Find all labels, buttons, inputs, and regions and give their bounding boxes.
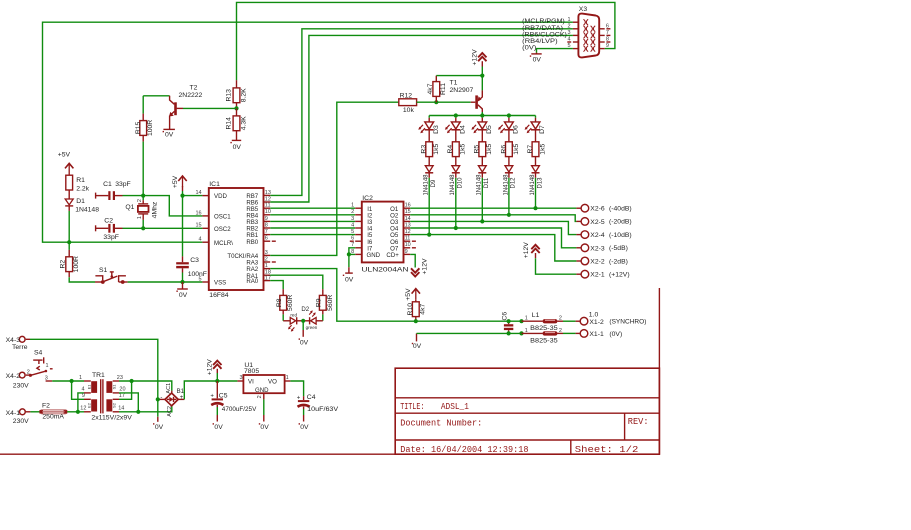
title block REV divider: [624, 413, 626, 440]
diode D13 1N4148: [530, 166, 543, 196]
svg-text:1: 1: [286, 375, 289, 381]
svg-text:6: 6: [606, 23, 609, 29]
svg-text:2: 2: [351, 209, 354, 215]
resistor R14: [226, 108, 248, 140]
svg-text:OSC1: OSC1: [214, 214, 231, 221]
svg-text:(-40dB): (-40dB): [609, 206, 632, 213]
wire RB3 to I3: [270, 220, 355, 222]
svg-text:R12: R12: [400, 93, 413, 100]
junction D12/O2: [507, 213, 511, 217]
ground 0V below rail: [153, 417, 164, 431]
svg-text:D3: D3: [433, 125, 440, 134]
svg-text:250mA: 250mA: [42, 414, 64, 421]
svg-text:VDD: VDD: [214, 193, 227, 200]
svg-text:OSC2: OSC2: [214, 226, 231, 233]
svg-text:D4: D4: [459, 125, 466, 134]
capacitor C3 100nF: [176, 256, 207, 278]
diode D10 1N4148: [450, 166, 463, 196]
X3 pin 2: [573, 28, 579, 30]
svg-text:16: 16: [195, 210, 201, 216]
svg-text:0V: 0V: [300, 424, 309, 431]
svg-text:3: 3: [265, 250, 268, 256]
ground 0V below IC2: [343, 254, 354, 283]
svg-text:B825-35: B825-35: [530, 338, 558, 345]
wire net MCLR X3.1 to left border loop: [43, 22, 573, 242]
IC2 pin 14 O3: [404, 220, 411, 222]
svg-text:R6: R6: [500, 145, 507, 154]
svg-text:6: 6: [351, 236, 354, 242]
IC2 pin 3: [355, 220, 362, 222]
svg-text:R10: R10: [407, 303, 414, 316]
svg-text:VO: VO: [268, 379, 277, 386]
junction F2/TR1 node: [76, 410, 80, 414]
wire +5V rail down to C3: [182, 191, 184, 256]
wire R15 bottom to crystal node: [142, 142, 144, 196]
junction L1 top left: [519, 319, 523, 323]
svg-text:33pF: 33pF: [103, 234, 119, 241]
svg-text:1k5: 1k5: [460, 144, 467, 155]
junction +12V node: [480, 74, 484, 78]
wire O4 to X2-3: [410, 228, 576, 248]
svg-text:0V: 0V: [300, 340, 309, 347]
IC2 pin 13 O4: [404, 227, 411, 229]
svg-text:D12: D12: [511, 177, 517, 189]
svg-text:12: 12: [405, 229, 411, 235]
wire C3 to VSS: [182, 273, 184, 283]
wire primary node down to pin 9: [72, 381, 84, 399]
wire 0V line to L bottom: [417, 332, 522, 334]
connector X2-2: [576, 257, 627, 265]
IC1 pin 17 RA0: [264, 280, 271, 282]
svg-text:S2: S2: [111, 402, 116, 408]
svg-text:+12V: +12V: [421, 258, 428, 275]
connector X2-1: [576, 270, 629, 278]
resistor R4 1k5: [447, 130, 467, 166]
svg-text:(0V): (0V): [609, 331, 622, 338]
svg-text:4k7: 4k7: [427, 83, 434, 94]
resistor R15: [135, 96, 154, 142]
wire R11 top to +12V node: [436, 75, 482, 77]
junction B1 minus / 0V rail: [156, 397, 160, 401]
junction R11 bottom / T1 base: [434, 100, 438, 104]
IC1 pin 16 OSC1: [202, 215, 208, 217]
ground 0V below T2: [163, 129, 175, 138]
wire L1 to X1-2: [563, 320, 576, 322]
LED D4: [445, 116, 467, 134]
wire crystal node to OSC1: [143, 196, 202, 216]
X3 pin 6 unconnected: [599, 28, 605, 30]
junction crystal top node: [141, 194, 145, 198]
svg-text:X2-6: X2-6: [590, 206, 605, 213]
title block row line 1: [395, 397, 659, 399]
svg-text:S1: S1: [111, 384, 116, 390]
wire X3.5 to 0V: [537, 49, 573, 53]
svg-text:RB0: RB0: [246, 239, 258, 246]
svg-text:IC2: IC2: [362, 195, 373, 202]
svg-text:13: 13: [405, 222, 411, 228]
X3 pin 3: [573, 34, 579, 36]
IC1 pin 13 RB7: [264, 194, 271, 196]
inductor B825-35 lower: [522, 328, 564, 345]
svg-text:3: 3: [240, 375, 243, 381]
svg-text:R2: R2: [60, 260, 67, 269]
X3 pin 8 unconnected: [599, 41, 605, 43]
svg-text:+: +: [180, 395, 184, 401]
IC IC2 ULN2004AN: [362, 195, 409, 274]
svg-text:9: 9: [82, 393, 85, 399]
title block row line 3: [395, 439, 659, 441]
svg-text:17: 17: [265, 275, 271, 281]
transformer TR1: [79, 372, 132, 422]
IC1 pin 1 RA2: [264, 268, 271, 270]
svg-text:20: 20: [119, 387, 125, 393]
svg-text:10uF/63V: 10uF/63V: [307, 406, 338, 413]
wire D9 to O5 row: [428, 178, 430, 235]
IC1 pin 5 VSS: [202, 281, 208, 283]
junction R10/synchro: [414, 319, 418, 323]
svg-text:IC1: IC1: [209, 181, 220, 188]
diode D12 1N4148: [503, 166, 516, 196]
svg-text:B825-35: B825-35: [530, 325, 558, 332]
capacitor C4 10uF/63V: [297, 394, 339, 413]
junction R13/R14/T2 base: [234, 106, 238, 110]
svg-text:0V: 0V: [413, 343, 422, 350]
svg-text:+5V: +5V: [405, 288, 412, 301]
svg-text:D7: D7: [539, 125, 546, 134]
svg-text:D10: D10: [458, 177, 464, 189]
connector X1-2: [576, 311, 647, 326]
svg-text:3: 3: [45, 376, 48, 382]
svg-text:14: 14: [118, 405, 124, 411]
junction GND node: [347, 252, 351, 256]
resistor R10 4k7: [407, 300, 427, 321]
svg-text:+5V: +5V: [172, 175, 179, 188]
frame bottom border line: [0, 453, 659, 455]
wire RB2 to I4: [270, 227, 355, 229]
junction L bottom left: [519, 331, 523, 335]
svg-text:GND: GND: [367, 252, 381, 259]
svg-text:T2: T2: [190, 85, 198, 92]
svg-text:Terre: Terre: [12, 344, 28, 351]
wire fuse to TR1 pin12: [67, 411, 84, 413]
capacitor C1 33pF: [96, 181, 131, 200]
svg-text:-: -: [160, 395, 162, 401]
IC1 pin 6 RB0 unconnected: [264, 240, 271, 242]
svg-text:1: 1: [265, 263, 268, 269]
svg-text:15: 15: [405, 209, 411, 215]
wire I7 to GND: [349, 248, 355, 255]
svg-text:12: 12: [80, 405, 86, 411]
svg-text:R15: R15: [135, 121, 142, 134]
IC2 pin 9 CD+: [404, 253, 411, 255]
IC1 pin 11 RB5: [264, 207, 271, 209]
svg-text:5: 5: [351, 229, 354, 235]
svg-text:1k5: 1k5: [513, 144, 520, 155]
wire S1 to VSS: [128, 281, 203, 283]
resistor R11 4k7: [427, 76, 447, 103]
svg-text:AC1: AC1: [166, 383, 172, 394]
+12V supply for X2-1: [523, 242, 540, 259]
svg-text:D1: D1: [76, 198, 85, 205]
wire net RB6/CLOCK X3.3: [270, 35, 573, 202]
wire O1 to X2-6: [410, 207, 576, 209]
svg-text:C1: C1: [103, 181, 112, 188]
connector X2-5: [576, 218, 631, 226]
wire +12V to T1 emitter: [481, 67, 483, 76]
svg-text:100R: 100R: [73, 256, 80, 272]
junction pin14 node: [136, 410, 140, 414]
svg-text:+12V: +12V: [523, 242, 530, 259]
+12V supply above C5: [206, 359, 221, 381]
svg-text:X4-2: X4-2: [6, 373, 21, 380]
svg-text:MCLR\: MCLR\: [214, 240, 233, 247]
svg-text:S1: S1: [99, 267, 108, 274]
svg-text:green: green: [306, 325, 318, 330]
+12V supply below CD+ pointing down: [411, 258, 428, 276]
connector X3 DB9: [578, 6, 599, 57]
svg-text:Sheet: 1/2: Sheet: 1/2: [575, 445, 639, 455]
svg-text:4.3K: 4.3K: [241, 116, 248, 130]
svg-text:GND: GND: [255, 387, 269, 394]
svg-text:10: 10: [265, 209, 271, 215]
connector X2-6: [576, 204, 631, 212]
svg-text:4: 4: [199, 237, 202, 243]
svg-text:T1: T1: [450, 79, 458, 86]
svg-text:R11: R11: [440, 83, 447, 95]
IC1 pin 4 MCLR: [202, 241, 208, 243]
svg-text:X4-1: X4-1: [6, 410, 21, 417]
svg-text:1: 1: [568, 17, 571, 23]
svg-text:D9: D9: [431, 179, 437, 187]
svg-text:Document Number:: Document Number:: [400, 419, 482, 429]
svg-text:3: 3: [568, 30, 571, 36]
wire TR1 pin20 down: [119, 393, 138, 412]
IC1 pin 12 RB6: [264, 201, 271, 203]
wire RA4/T0CKI to R12: [270, 102, 399, 255]
junction crystal bottom node: [141, 226, 145, 230]
svg-text:100R: 100R: [147, 120, 154, 136]
wire +12V to X2-1: [536, 258, 577, 274]
junction on MCLR line: [67, 240, 71, 244]
junction C6 bottom: [507, 331, 511, 335]
svg-text:5: 5: [568, 43, 571, 49]
svg-text:11: 11: [405, 236, 411, 242]
svg-text:X3: X3: [579, 6, 588, 13]
wire C1 to crystal node: [123, 195, 144, 197]
svg-text:ULN2004AN: ULN2004AN: [362, 267, 409, 274]
svg-text:7: 7: [606, 30, 609, 36]
switch S4: [27, 349, 53, 381]
svg-text:ADSL_1: ADSL_1: [441, 402, 469, 412]
junction bus D6: [507, 113, 511, 117]
wire T2 base to R13/R14 junction: [183, 107, 237, 109]
svg-text:17: 17: [119, 393, 125, 399]
svg-text:230V: 230V: [13, 382, 29, 389]
bridge rectifier B1: [158, 383, 185, 417]
wire pin14 to AC2: [119, 406, 172, 412]
wire X4-1 to fuse: [30, 411, 39, 413]
wire pin23 to pin17 tie: [119, 381, 132, 399]
junction D11/O3: [480, 219, 484, 223]
IC IC1 16F84: [209, 181, 264, 299]
junction S4/TR1 node: [70, 379, 74, 383]
resistor R7 1k5: [527, 130, 547, 166]
IC1 pin 18 RA1: [264, 274, 271, 276]
svg-text:X1-1: X1-1: [589, 331, 604, 338]
svg-text:8: 8: [265, 222, 268, 228]
wire B1 plus to +12V node: [184, 381, 237, 399]
wire RA0 to R8: [270, 281, 283, 290]
svg-text:10k: 10k: [403, 107, 415, 114]
svg-text:11: 11: [265, 203, 271, 209]
svg-text:1: 1: [46, 363, 49, 369]
svg-text:R7: R7: [527, 145, 534, 154]
capacitor C6: [501, 312, 513, 334]
wire X4-3 to 0V rail: [30, 339, 158, 417]
svg-text:4Mhz: 4Mhz: [152, 201, 159, 218]
inductor L1 B825-35: [522, 312, 564, 332]
resistor R6 1k5: [500, 130, 520, 166]
resistor R5 1k5: [474, 130, 494, 166]
IC1 pin 8 RB2: [264, 227, 271, 229]
svg-text:4: 4: [568, 37, 571, 43]
svg-text:14: 14: [405, 216, 411, 222]
X3 pin 5: [573, 48, 579, 50]
connector X2-4: [576, 231, 631, 239]
junction +12V node: [215, 379, 219, 383]
wire D11 to O3 row: [481, 178, 483, 222]
svg-text:R3: R3: [421, 145, 428, 154]
LED D2 red half: [283, 306, 310, 332]
wire O2 to X2-5: [410, 215, 576, 222]
resistor R13: [226, 80, 248, 108]
wire R12 to T1 base: [417, 101, 471, 103]
svg-text:0V: 0V: [179, 292, 188, 299]
svg-text:VSS: VSS: [214, 280, 226, 287]
svg-text:4700uF/25V: 4700uF/25V: [222, 406, 257, 413]
wire RB5 to I1: [270, 207, 355, 209]
svg-text:560R: 560R: [327, 295, 334, 311]
wire lower L to X1-1: [563, 332, 576, 334]
svg-text:Date: 16/04/2004 12:39:18: Date: 16/04/2004 12:39:18: [400, 445, 528, 455]
svg-text:7: 7: [265, 229, 268, 235]
svg-text:4k7: 4k7: [419, 304, 426, 315]
svg-text:33pF: 33pF: [115, 181, 131, 188]
regulator U1 7805: [237, 362, 290, 400]
ground 0V below X3 pin5: [530, 53, 542, 64]
svg-text:+12V: +12V: [206, 359, 213, 376]
ground 0V below U1: [259, 399, 269, 430]
wire R8 to D2 left: [282, 314, 284, 320]
IC1 pin 15 OSC2: [202, 227, 208, 229]
svg-text:CD+: CD+: [386, 252, 399, 259]
fuse F2 250mA: [39, 402, 67, 420]
wire R9 to D2 right: [322, 314, 324, 320]
wire CD+ to +12V: [410, 254, 415, 267]
svg-text:2x115V/2x9V: 2x115V/2x9V: [91, 415, 132, 422]
svg-text:0V: 0V: [233, 144, 242, 151]
wire RB4 to I2: [270, 214, 355, 216]
svg-text:230V: 230V: [13, 418, 29, 425]
svg-text:D13: D13: [537, 177, 543, 189]
svg-text:R8: R8: [276, 298, 283, 307]
ground 0V below VSS: [176, 282, 187, 299]
svg-text:X2-4: X2-4: [590, 232, 605, 239]
svg-text:E2: E2: [87, 402, 92, 408]
junction D2 center: [301, 319, 305, 323]
svg-text:2.2k: 2.2k: [76, 185, 89, 192]
svg-text:2: 2: [559, 328, 562, 334]
junction pin23 node: [130, 379, 134, 383]
junction bus T1: [480, 113, 484, 117]
svg-text:8: 8: [606, 37, 609, 43]
svg-text:X2-5: X2-5: [590, 219, 605, 226]
IC2 pin 11 O6 unconnected: [404, 240, 411, 242]
svg-text:X2-1: X2-1: [590, 272, 605, 279]
svg-text:1k5: 1k5: [433, 144, 440, 155]
wire LED anode bus: [429, 115, 535, 117]
svg-text:R9: R9: [316, 298, 323, 307]
IC1 pin 14 VDD: [202, 195, 208, 197]
svg-text:0V: 0V: [345, 276, 354, 283]
IC1 pin 9 RB3: [264, 220, 271, 222]
junction D13/O1: [533, 206, 537, 210]
connector X4-3 Terre: [6, 336, 30, 351]
transistor T1 2N2907: [450, 76, 483, 112]
IC1 pin 3 T0CKI/RA4: [264, 254, 271, 256]
svg-text:0V: 0V: [165, 131, 174, 138]
resistor R12 10k: [399, 93, 417, 114]
IC2 pin 2: [355, 214, 362, 216]
ground 0V line under R10: [412, 333, 422, 350]
svg-text:C2: C2: [104, 218, 113, 225]
connector X4-1 230V: [6, 409, 31, 425]
svg-text:(-2dB): (-2dB): [609, 258, 628, 265]
wire net RB7/DATA X3.2: [270, 29, 573, 196]
IC2 pin 16 O1: [404, 207, 411, 209]
switch S1: [95, 267, 128, 284]
svg-text:7805: 7805: [244, 368, 259, 375]
IC2 pin 4: [355, 227, 362, 229]
IC2 pin 8 GND: [355, 253, 362, 255]
+5V supply above IC1 VDD rail: [172, 175, 187, 191]
crystal Q1 4MHz: [125, 196, 158, 220]
svg-text:red: red: [290, 313, 297, 318]
transistor T2 2N2222: [169, 85, 203, 130]
svg-text:9: 9: [265, 216, 268, 222]
wire D13 to O1 row: [535, 178, 537, 208]
diode D1 1N4148: [65, 198, 99, 213]
svg-text:(+12V): (+12V): [609, 272, 630, 279]
svg-text:100nF: 100nF: [188, 271, 207, 278]
frame right border line: [658, 288, 660, 454]
+5V supply above R1: [58, 151, 74, 174]
wire D1 to MCLR line: [68, 211, 70, 242]
svg-text:D11: D11: [484, 177, 490, 188]
svg-text:X1-2: X1-2: [589, 319, 604, 326]
svg-text:VI: VI: [248, 379, 254, 386]
diode D9 1N4148: [424, 166, 437, 196]
IC2 pin 12 O5: [404, 234, 411, 236]
wire D10 to O4 row: [455, 178, 457, 228]
svg-text:9: 9: [606, 43, 609, 49]
svg-text:8.2K: 8.2K: [241, 88, 248, 102]
svg-text:R13: R13: [226, 89, 233, 102]
resistor R9 560R: [316, 289, 334, 314]
svg-text:R1: R1: [76, 177, 85, 184]
svg-text:E1: E1: [87, 384, 92, 390]
svg-text:3: 3: [351, 216, 354, 222]
